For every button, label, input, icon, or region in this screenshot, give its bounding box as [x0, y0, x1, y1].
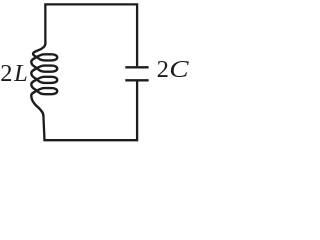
svg-text:C: C [169, 55, 189, 82]
capacitor 2C top plate [125, 66, 148, 68]
wire: from capacitor bottom plate, down, bottom, left side up to coil [43, 81, 137, 140]
wire: left-top, top, right side down to capacitor [45, 4, 137, 66]
inductor 2L: coil loops [31, 54, 57, 94]
inductor 2L: entry from top wire [33, 41, 45, 57]
svg-text:2: 2 [157, 56, 169, 83]
svg-text:2L: 2L [0, 60, 29, 87]
inductor 2L: exit tail to bottom wire [31, 91, 43, 116]
capacitor 2C bottom plate [125, 79, 148, 81]
